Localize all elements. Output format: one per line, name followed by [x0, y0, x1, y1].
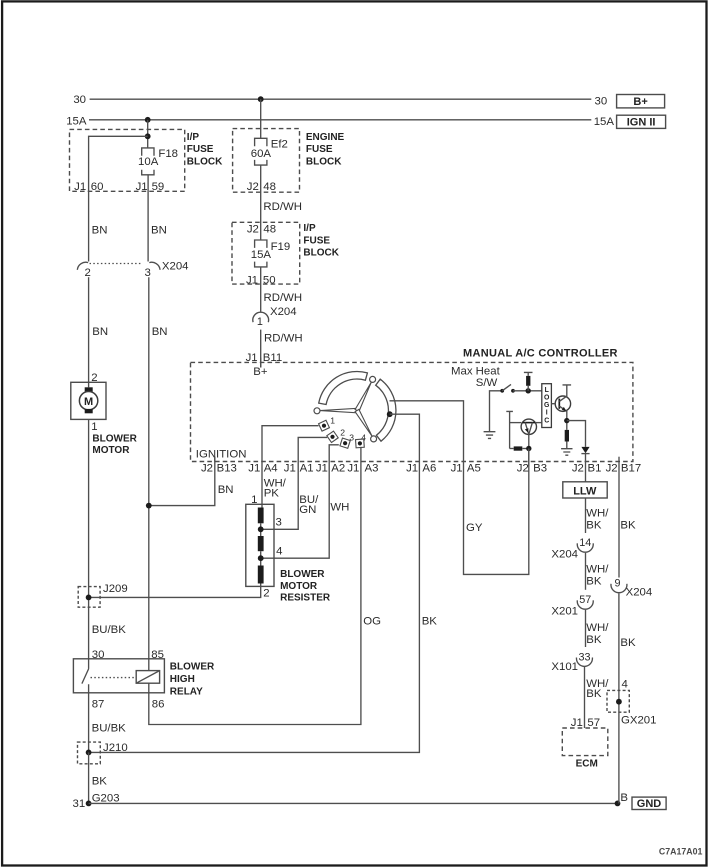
LLW box	[563, 482, 607, 498]
blower motor top terminal	[85, 387, 93, 391]
pin tick J1-B11	[260, 358, 262, 368]
svg-text:J2: J2	[201, 462, 213, 474]
blower switch arc band upper-left	[319, 371, 368, 404]
wire 15A bus to fuse block	[147, 120, 149, 148]
ground below resistor	[561, 449, 572, 456]
junction dot tap 4	[258, 555, 264, 561]
junction GX201 dot	[616, 699, 622, 705]
transistor Q3 base line with terminal	[506, 411, 513, 448]
svg-text:LLW: LLW	[573, 485, 597, 497]
junction dot on right band	[387, 411, 393, 417]
junction dot inside fuse block	[145, 133, 151, 139]
svg-text:Ef2: Ef2	[271, 139, 288, 151]
svg-text:MOTOR: MOTOR	[280, 581, 318, 592]
engine fuse block dashed box	[233, 129, 300, 193]
contact 1 square	[319, 420, 330, 431]
connector X204 pins 2-3 dotted line	[90, 263, 143, 265]
fuse F19 15A	[255, 240, 267, 248]
junction dot bus15A/F18	[145, 117, 151, 123]
svg-text:BLOCK: BLOCK	[303, 248, 339, 259]
svg-text:BU/BK: BU/BK	[92, 723, 127, 735]
blower motor box	[71, 382, 106, 419]
svg-text:4: 4	[622, 679, 628, 691]
svg-text:OG: OG	[363, 616, 381, 628]
svg-text:X204: X204	[162, 261, 189, 273]
junction J209 dashed box	[78, 587, 100, 608]
svg-text:BK: BK	[620, 520, 636, 532]
relay switch stub and blade	[82, 659, 89, 693]
fuse Ef2 60A	[255, 138, 267, 146]
svg-text:IGN II: IGN II	[627, 117, 656, 129]
pull-up resistor max heat	[526, 376, 530, 386]
wire contact4 to J1-A3 column	[149, 447, 361, 725]
svg-text:J1: J1	[136, 181, 148, 193]
max heat switch contacts and blade	[500, 389, 504, 393]
svg-text:BK: BK	[586, 520, 602, 532]
svg-text:15A: 15A	[594, 116, 615, 128]
svg-text:4: 4	[276, 545, 282, 557]
wire contact1 to J1-A4 column	[262, 426, 319, 508]
svg-text:MANUAL A/C CONTROLLER: MANUAL A/C CONTROLLER	[463, 347, 618, 359]
svg-text:B+: B+	[633, 96, 647, 108]
wire F19 down to X204 connector	[260, 267, 262, 312]
transistor Q2	[555, 396, 570, 411]
svg-text:J1: J1	[74, 181, 86, 193]
svg-text:BLOCK: BLOCK	[187, 156, 223, 167]
wire X204 to J1-B11	[260, 330, 262, 368]
svg-text:Max Heat: Max Heat	[451, 365, 501, 377]
svg-text:60A: 60A	[251, 148, 272, 160]
svg-text:GX201: GX201	[621, 715, 656, 727]
svg-text:BK: BK	[620, 637, 636, 649]
svg-text:A3: A3	[365, 462, 379, 474]
wire to X101	[585, 610, 587, 647]
svg-text:57: 57	[579, 594, 591, 606]
svg-text:14: 14	[579, 537, 591, 549]
junction J210 dot	[86, 750, 92, 756]
blower motor resistor box	[246, 504, 274, 586]
svg-text:RD/WH: RD/WH	[264, 333, 303, 345]
blower motor M circle	[79, 392, 97, 410]
svg-text:FUSE: FUSE	[306, 144, 333, 155]
svg-text:WH/: WH/	[586, 622, 609, 634]
ground G203 dot	[86, 801, 92, 807]
svg-text:IGNITION: IGNITION	[196, 448, 247, 460]
svg-text:X204: X204	[626, 587, 653, 599]
svg-text:86: 86	[152, 699, 165, 711]
svg-text:BK: BK	[586, 634, 602, 646]
svg-text:A5: A5	[467, 462, 481, 474]
svg-text:BLOWER: BLOWER	[92, 433, 137, 444]
resistor Q3 emitter	[510, 448, 514, 450]
svg-text:GY: GY	[466, 522, 483, 534]
svg-text:B+: B+	[253, 366, 268, 378]
svg-text:30: 30	[73, 94, 86, 106]
svg-text:31: 31	[73, 798, 86, 810]
wire band to J1-A6	[89, 414, 420, 752]
wire Ef2 down to F19	[260, 165, 262, 240]
connector X204 pin 1	[253, 312, 269, 322]
svg-text:15A: 15A	[251, 249, 272, 261]
I/P fuse block 2 dashed box	[232, 222, 300, 284]
contact 3 square	[340, 438, 350, 448]
svg-text:J1: J1	[406, 462, 418, 474]
wire LLW down	[585, 498, 587, 533]
svg-text:I/P: I/P	[303, 223, 316, 234]
svg-text:I: I	[546, 410, 548, 417]
bus 30 line	[90, 98, 592, 100]
svg-text:1: 1	[91, 421, 97, 433]
junction dot BN column	[146, 503, 152, 509]
wire X204-9 to GX201	[618, 593, 620, 803]
svg-text:BK: BK	[586, 575, 602, 587]
svg-text:J210: J210	[103, 742, 128, 754]
svg-text:BU/BK: BU/BK	[92, 624, 127, 636]
svg-text:3: 3	[276, 517, 282, 529]
blower high relay box	[73, 659, 164, 693]
resistor below Q2	[565, 430, 569, 442]
svg-text:WH: WH	[330, 502, 349, 514]
junction J210 dashed box	[78, 742, 101, 764]
svg-text:BN: BN	[92, 326, 108, 338]
junction GX201 dashed box	[607, 690, 629, 712]
ground max heat	[484, 432, 496, 439]
svg-text:2: 2	[340, 427, 345, 437]
svg-text:GND: GND	[637, 798, 662, 810]
wire B13 BN to main BN column	[149, 457, 215, 506]
svg-text:J2: J2	[247, 223, 259, 235]
blower switch terminal circle top	[370, 376, 376, 382]
svg-text:L: L	[545, 387, 549, 394]
svg-text:J1: J1	[347, 462, 359, 474]
svg-text:J1: J1	[246, 275, 258, 287]
wire BN left lower to motor	[88, 277, 90, 387]
blower motor bottom terminal	[85, 409, 93, 413]
svg-text:4: 4	[361, 433, 366, 443]
svg-text:48: 48	[263, 181, 276, 193]
svg-text:B17: B17	[621, 462, 641, 474]
svg-text:B3: B3	[533, 462, 547, 474]
resistor element 1	[258, 508, 264, 524]
manual A/C controller dashed box	[191, 362, 633, 461]
svg-text:J209: J209	[103, 583, 128, 595]
svg-text:WH/: WH/	[586, 563, 609, 575]
svg-text:HIGH: HIGH	[170, 674, 195, 685]
wire Q3 emitter	[528, 434, 530, 448]
svg-text:B: B	[620, 792, 628, 804]
connector X204 pin 2 arc	[77, 262, 88, 270]
svg-text:9: 9	[614, 577, 620, 589]
relay actuation dotted line	[91, 677, 137, 679]
junction dot Q2 emitter	[564, 418, 569, 423]
fuse F18 10A	[142, 148, 154, 156]
svg-text:3: 3	[145, 267, 151, 279]
svg-text:BK: BK	[586, 688, 602, 700]
junction dot bus30/engine-fuse	[258, 96, 264, 102]
svg-text:60: 60	[91, 181, 104, 193]
svg-text:33: 33	[578, 651, 590, 663]
svg-text:10A: 10A	[138, 156, 159, 168]
svg-text:B1: B1	[588, 462, 602, 474]
svg-text:J1: J1	[284, 462, 296, 474]
svg-text:GN: GN	[299, 504, 316, 516]
svg-text:ECM: ECM	[576, 759, 598, 770]
svg-text:BN: BN	[92, 224, 108, 236]
svg-text:J1: J1	[248, 462, 260, 474]
blower switch terminal circle left	[314, 408, 320, 414]
svg-text:M: M	[84, 396, 93, 408]
bus 15A line	[89, 119, 591, 121]
svg-text:RD/WH: RD/WH	[263, 201, 302, 213]
svg-text:A6: A6	[422, 462, 436, 474]
svg-text:A4: A4	[264, 462, 278, 474]
wire switch to logic	[513, 390, 542, 392]
svg-text:87: 87	[92, 699, 105, 711]
wire band to J1-A5 and B3	[390, 401, 529, 575]
svg-text:J2: J2	[247, 181, 259, 193]
svg-text:WH/: WH/	[586, 508, 609, 520]
node B+ box	[617, 95, 665, 108]
junction dot resistor/switch wire	[526, 388, 531, 393]
svg-text:C7A17A01: C7A17A01	[659, 847, 703, 857]
contact 4 square	[356, 439, 365, 448]
pin tick J2-B17	[618, 457, 620, 462]
diode to J2-B1	[581, 447, 589, 453]
max heat switch wire and ground	[490, 391, 502, 432]
svg-text:I/P: I/P	[187, 132, 200, 143]
svg-text:RELAY: RELAY	[170, 686, 203, 697]
svg-text:J1: J1	[316, 462, 328, 474]
wire B3 tick	[528, 449, 530, 467]
svg-text:59: 59	[152, 181, 165, 193]
svg-text:G203: G203	[92, 792, 120, 804]
svg-text:50: 50	[263, 275, 276, 287]
wire Q2 emitter to diode	[567, 421, 586, 447]
svg-text:BN: BN	[151, 224, 167, 236]
svg-text:BN: BN	[152, 326, 168, 338]
svg-text:PK: PK	[264, 487, 280, 499]
transistor Q3	[521, 419, 536, 434]
wire F18 to J1-59	[147, 175, 149, 262]
svg-text:F19: F19	[271, 241, 291, 253]
svg-text:RESISTER: RESISTER	[280, 593, 331, 604]
svg-text:G: G	[544, 402, 549, 409]
junction dot Q3 emitter to B3	[526, 446, 531, 451]
junction J209 dot	[86, 595, 92, 601]
wire to ECM	[584, 667, 586, 728]
connector X204 pin 3 arc	[149, 262, 160, 270]
svg-text:C: C	[544, 417, 549, 424]
svg-text:J2: J2	[606, 462, 618, 474]
svg-text:X101: X101	[551, 661, 578, 673]
wire resistor pin 2 to J209	[89, 584, 261, 598]
svg-text:30: 30	[595, 96, 608, 108]
junction dot tap 3	[258, 526, 264, 532]
ECM dashed box	[562, 728, 608, 756]
wire 87 down to J210	[88, 693, 90, 753]
svg-text:2: 2	[263, 588, 269, 600]
ground bus right dot	[615, 801, 621, 807]
svg-text:X204: X204	[270, 306, 297, 318]
svg-text:S/W: S/W	[476, 377, 498, 389]
svg-text:2: 2	[85, 267, 91, 279]
svg-text:1: 1	[330, 416, 335, 426]
LOGIC box	[542, 384, 552, 428]
resistor element 3	[258, 566, 264, 584]
svg-text:J2: J2	[517, 462, 529, 474]
contact 2 square	[327, 431, 338, 442]
relay coil box	[136, 671, 159, 684]
svg-text:1: 1	[251, 494, 257, 506]
svg-text:J2: J2	[572, 462, 584, 474]
svg-text:MOTOR: MOTOR	[92, 445, 130, 456]
wire bus30 to Ef2	[260, 99, 262, 138]
wire jog to J1-60 column	[89, 136, 148, 261]
svg-text:FUSE: FUSE	[187, 144, 214, 155]
svg-text:BK: BK	[422, 616, 438, 628]
svg-text:X201: X201	[551, 606, 578, 618]
blower switch arc band right	[376, 379, 396, 441]
wire contact3 to J1-A2 column	[262, 445, 339, 558]
svg-text:X204: X204	[551, 549, 578, 561]
pin tick J2-B13	[214, 457, 216, 462]
svg-text:48: 48	[263, 223, 276, 235]
wire contact2 to J1-A1 column	[262, 437, 327, 529]
svg-text:A1: A1	[300, 462, 314, 474]
wire B17 column down	[618, 462, 620, 578]
blower switch terminal circle bottom	[371, 436, 377, 442]
resistor element 2	[258, 536, 264, 551]
wire J210 to G203	[88, 752, 90, 803]
svg-text:RD/WH: RD/WH	[264, 292, 303, 304]
I/P fuse block 1 dashed box	[70, 129, 185, 191]
wire J209 to relay pin 30	[88, 597, 90, 658]
node GND box	[632, 797, 666, 809]
blower switch rotor spoke bottom	[355, 409, 372, 436]
node IGN II box	[617, 115, 666, 128]
svg-text:BN: BN	[218, 484, 234, 496]
wire motor to J209	[88, 419, 90, 597]
svg-text:FUSE: FUSE	[303, 235, 330, 246]
svg-text:BK: BK	[92, 776, 108, 788]
ground bus line	[89, 802, 618, 804]
svg-text:J1: J1	[451, 462, 463, 474]
svg-text:A2: A2	[331, 462, 345, 474]
svg-text:ENGINE: ENGINE	[306, 132, 345, 143]
blower switch rotor spoke left	[320, 408, 357, 413]
svg-text:1: 1	[257, 316, 263, 328]
svg-text:BLOWER: BLOWER	[280, 569, 325, 580]
wire to X201	[585, 553, 587, 590]
svg-text:B13: B13	[217, 462, 237, 474]
blower switch rotor spoke top	[355, 382, 371, 411]
svg-text:F18: F18	[158, 148, 178, 160]
svg-text:O: O	[544, 395, 550, 402]
svg-text:BLOWER: BLOWER	[170, 662, 215, 673]
svg-text:15A: 15A	[66, 115, 87, 127]
svg-text:3: 3	[349, 433, 354, 443]
wire BN right lower to relay	[148, 277, 150, 670]
svg-text:BLOCK: BLOCK	[306, 156, 342, 167]
